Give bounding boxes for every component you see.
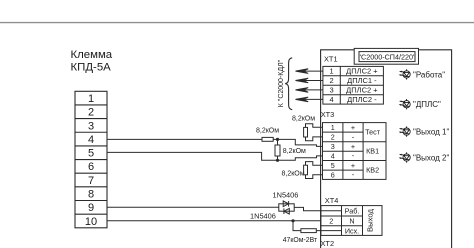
wire: terminal 10 to XT4 pin 2 (N): [107, 220, 321, 222]
svg-text:7: 7: [88, 175, 94, 187]
svg-text:Раб.: Раб.: [345, 207, 360, 216]
brace grouping the four DPLS wires: [285, 58, 292, 110]
wire: terminal 4 to series resistor: [107, 138, 262, 140]
svg-text:6: 6: [88, 161, 94, 173]
svg-text:"ДПЛС": "ДПЛС": [413, 100, 441, 109]
LED indicator "ДПЛС": [399, 99, 441, 109]
svg-text:2: 2: [329, 217, 333, 226]
terminal numbers 1-10: [85, 93, 97, 228]
svg-text:+: +: [351, 142, 355, 151]
svg-text:5: 5: [88, 148, 94, 160]
LED indicator "Работа": [399, 69, 446, 79]
svg-text:2: 2: [88, 107, 94, 119]
svg-text:"Работа": "Работа": [413, 70, 445, 79]
svg-text:8,2кОм: 8,2кОм: [282, 170, 305, 177]
svg-text:ДПЛС2 +: ДПЛС2 +: [346, 67, 378, 76]
svg-text:3: 3: [88, 120, 94, 132]
svg-text:1: 1: [330, 67, 334, 76]
svg-text:3: 3: [331, 142, 335, 151]
svg-text:4: 4: [330, 95, 334, 104]
svg-text:N: N: [349, 217, 354, 226]
svg-text:ХТ4: ХТ4: [325, 196, 339, 205]
connector XT1 table: [323, 66, 384, 104]
node N1 (junction dot): [276, 138, 279, 141]
svg-text:ДПЛС2 -: ДПЛС2 -: [347, 95, 377, 104]
svg-text:10: 10: [85, 216, 97, 228]
svg-text:"Выход 2": "Выход 2": [413, 154, 449, 163]
svg-text:Клемма: Клемма: [71, 49, 113, 61]
shunt resistor 8,2кОм between N1 and N2: [275, 139, 306, 160]
svg-text:9: 9: [88, 202, 94, 214]
svg-text:+: +: [351, 161, 355, 170]
svg-text:8,2кОм: 8,2кОм: [256, 127, 279, 134]
svg-text:8,2кОм: 8,2кОм: [283, 148, 306, 155]
svg-text:47кОм-2Вт: 47кОм-2Вт: [283, 237, 318, 244]
svg-text:2: 2: [331, 133, 335, 142]
XT3 pin numbers, polarity and contact names: [331, 123, 381, 179]
svg-text:6: 6: [331, 170, 335, 179]
svg-text:Исх.: Исх.: [345, 226, 359, 235]
svg-text:2: 2: [330, 76, 334, 85]
svg-text:ХТ1: ХТ1: [324, 55, 338, 64]
svg-text:ДПЛС2 +: ДПЛС2 +: [346, 86, 378, 95]
resistor 8,2кОм across XT3 pins 1-2 (Тест): [292, 116, 323, 141]
svg-text:1: 1: [88, 93, 94, 105]
diode pair 1N5406 (anti-parallel): [250, 190, 298, 220]
svg-text:3: 3: [330, 86, 334, 95]
wire: diode pair to XT4 pin 1 (Раб.): [294, 207, 341, 210]
page rule (top horizontal divider): [0, 22, 474, 24]
wires with arrows to C2000-KDL (XT1 pins 1-4): [296, 69, 323, 102]
device name label "С2000-СП4/220": [354, 48, 418, 64]
svg-text:1N5406: 1N5406: [273, 190, 299, 199]
svg-text:"С2000-СП4/220": "С2000-СП4/220": [358, 52, 415, 61]
node N2 (junction dot): [276, 159, 279, 162]
LED indicator "Выход 1": [399, 126, 450, 136]
device box С2000-СП4/220: [321, 50, 452, 248]
svg-text:4: 4: [88, 134, 94, 146]
svg-text:Тест: Тест: [365, 128, 381, 137]
svg-text:ДПЛС1 -: ДПЛС1 -: [347, 76, 377, 85]
svg-text:К "С2000-КДЛ": К "С2000-КДЛ": [278, 59, 285, 107]
LED indicator "Выход 2": [399, 152, 450, 162]
wire: node N3 down to 47k resistor: [293, 221, 301, 231]
svg-text:5: 5: [331, 161, 335, 170]
wire: terminal 5 to node N2 and on to XT3 pin 4: [107, 152, 323, 160]
series resistor 8,2кОм (horizontal): [256, 127, 279, 141]
resistor 8,2кОм across XT3 pins 5-6 (КВ2): [282, 162, 323, 179]
svg-text:8,2кОм: 8,2кОм: [292, 116, 315, 123]
wire: 47k resistor to XT4 pin 3 (Исх.): [316, 230, 341, 232]
svg-text:4: 4: [331, 152, 335, 161]
svg-text:ХТ3: ХТ3: [321, 110, 335, 119]
svg-text:Выход: Выход: [365, 208, 374, 232]
svg-text:КПД-5А: КПД-5А: [71, 61, 112, 73]
svg-text:1N5406: 1N5406: [250, 211, 276, 220]
connector XT4 table: [321, 206, 382, 236]
svg-text:+: +: [351, 123, 355, 132]
node N3 (junction dot on terminal-10 wire): [291, 219, 294, 222]
svg-text:"Выход 1": "Выход 1": [413, 128, 449, 137]
svg-text:КВ1: КВ1: [366, 147, 379, 156]
svg-text:КВ2: КВ2: [366, 166, 379, 175]
connector XT3 table: [323, 123, 387, 180]
XT4 pin labels: [329, 207, 359, 236]
terminal block КПД-5А (10 terminals): [75, 91, 107, 228]
svg-text:ХТ2: ХТ2: [321, 239, 335, 248]
terminal block title "Клемма КПД-5А": [71, 49, 113, 73]
svg-text:1: 1: [331, 123, 335, 132]
XT1 pin numbers and names: [330, 67, 379, 104]
resistor 47кОм-2Вт: [283, 229, 318, 244]
wire: resistor to node N1 and on to XT3 pin 3: [273, 139, 322, 146]
wire: terminal 9 to diode pair: [107, 206, 279, 208]
svg-text:8: 8: [88, 189, 94, 201]
